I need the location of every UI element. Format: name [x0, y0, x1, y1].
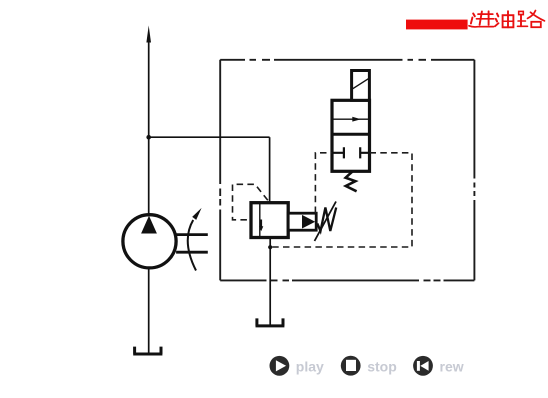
进 — [478, 13, 493, 15]
pump P1 (variable displacement) — [123, 208, 208, 271]
legend text 进油路 (drawn strokes) — [469, 11, 545, 28]
valve V2 return spring — [346, 172, 357, 192]
solenoid valve V2 body — [332, 100, 370, 171]
pilot line (dashed) around solenoid valve — [272, 153, 412, 247]
flow direction arrow (top of pump line) — [146, 26, 151, 43]
wire: pump vertical line — [148, 41, 150, 354]
wire: horizontal line pump to valve — [149, 136, 270, 138]
tank T1 (bottom left) — [133, 347, 162, 354]
svg-text:rew: rew — [440, 358, 464, 374]
valve V2 blocked ports (lower position) — [332, 147, 370, 158]
legend bar (red) — [406, 20, 468, 30]
stop button — [341, 356, 361, 376]
svg-text:stop: stop — [367, 358, 397, 374]
wire: vertical drop to valve V1 — [269, 137, 271, 203]
valve V1 pilot section with check triangle — [288, 213, 316, 230]
svg-text:play: play — [296, 358, 324, 374]
valve V1 adjustable spring — [315, 202, 337, 242]
pilot line (dashed) to valve V1 left side — [233, 184, 268, 220]
wire: valve V1 to tank T2 — [269, 237, 271, 327]
油 — [497, 14, 498, 17]
play button — [270, 356, 290, 376]
valve V1 body (pressure compensator) — [251, 203, 288, 238]
node: junction dot pilot tap — [268, 245, 272, 249]
solenoid coil of V2 — [352, 71, 370, 101]
enclosure boundary (chain-line box) — [220, 60, 474, 281]
rew button — [413, 356, 433, 376]
node: junction dot at pump line — [146, 135, 151, 140]
路 — [519, 11, 524, 14]
tank T2 (bottom center) — [256, 318, 285, 326]
valve V2 flow path arrow (upper position) — [334, 117, 369, 122]
